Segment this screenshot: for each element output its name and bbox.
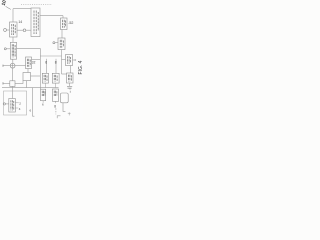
wire tuner output right [40, 15, 63, 17]
wire circle to U3 [55, 42, 58, 44]
node label 10 [1, 0, 8, 6]
wire rounded box down with foot [63, 103, 65, 112]
bottom L mark [57, 116, 60, 119]
wire A2 output right to bus [17, 47, 41, 49]
svg-text:-52: -52 [68, 21, 73, 25]
wire leader from 10 [6, 6, 11, 9]
big enclosure rect [4, 91, 27, 115]
block U1 tuner [31, 8, 40, 37]
dotted header line [21, 4, 52, 6]
wire circle to bottom box [5, 103, 8, 105]
svg-text:8: 8 [55, 60, 57, 64]
block B row1 [52, 73, 59, 83]
terminal tick SQ input [2, 82, 4, 84]
wire U2 down [61, 30, 63, 39]
wire EB right to bus [31, 75, 41, 77]
label 32 [32, 61, 36, 65]
capacitor below C [69, 83, 71, 86]
FIG. 4 caption [78, 60, 84, 74]
tick below row2 right [54, 101, 56, 103]
block A row1 [42, 73, 48, 83]
wire terminal to mixer [3, 65, 10, 67]
block C right column lower [67, 73, 74, 83]
leader and label above box A [46, 59, 48, 74]
bus wire horizontal [2, 87, 59, 89]
wire top horizontal to tuner [13, 8, 31, 10]
terminal circle bottom input [3, 103, 5, 105]
block U3 [58, 38, 65, 50]
block A2 [10, 42, 16, 59]
wire R1 to C vertical [69, 66, 71, 74]
rounded box bottom right [60, 93, 68, 103]
t mark [68, 112, 71, 115]
svg-text:8: 8 [54, 104, 56, 108]
terminal circle A1 input [4, 29, 7, 32]
wire EB down to bus line [26, 81, 28, 88]
wire MB down to EB [27, 69, 29, 73]
leader and label above box B [55, 59, 57, 74]
wire SQ down to bottom box [12, 86, 14, 98]
mixer X1 [10, 63, 15, 68]
wire A1 right to coupling circle [17, 29, 23, 31]
block U2 [61, 18, 68, 30]
block row2 right [52, 89, 58, 101]
wire from U3 bottom [61, 50, 63, 75]
wire mixer to MB [15, 65, 26, 67]
terminal tick mixer input [2, 65, 4, 67]
block SQ square [10, 81, 15, 87]
wire terminal to SQ [3, 82, 10, 84]
label 56 [30, 108, 32, 112]
block EB empty [23, 73, 31, 81]
label 52 [68, 21, 73, 25]
wire stub to C [62, 73, 67, 75]
dashed drop [55, 108, 57, 114]
wire MB output to bus [32, 59, 41, 61]
tick below row2 left [42, 101, 44, 103]
stub A to bus [44, 83, 46, 88]
wire left branch to bus [40, 55, 61, 57]
wire mixer down to SQ [12, 68, 14, 81]
wire circle to A1 [6, 29, 9, 31]
wire circle to A2 [6, 48, 10, 50]
svg-text:32: 32 [32, 61, 36, 65]
coupling circle [23, 29, 26, 32]
wire SQ right to EB [15, 81, 23, 84]
block MB [26, 57, 32, 69]
block R1 top right [66, 55, 73, 66]
label 14 [18, 20, 22, 24]
terminal circle U3 input [53, 42, 55, 44]
wire drop at x32 [32, 88, 34, 117]
stub outputs right of bottom box [15, 102, 18, 104]
stub B to bus [55, 83, 57, 88]
output arrow R1 [73, 59, 77, 61]
wire down into RB [62, 16, 64, 18]
terminal circle A2 input [4, 48, 6, 50]
svg-text:6: 6 [45, 60, 47, 64]
block bottom inner [9, 99, 16, 113]
svg-text:FIG. 4: FIG. 4 [78, 60, 83, 74]
label blob [54, 104, 56, 108]
block row2 left [41, 89, 46, 101]
wire A2 down to mixer [12, 59, 14, 63]
wire coupling circle to tuner [26, 29, 31, 31]
svg-text:14: 14 [18, 20, 22, 24]
wire A1 down to A2 [12, 37, 14, 42]
block A1 left amp [10, 22, 18, 37]
wire stub to R1 [62, 59, 66, 61]
wire down to amp LB1 [12, 9, 14, 22]
bus vertical [39, 48, 41, 89]
